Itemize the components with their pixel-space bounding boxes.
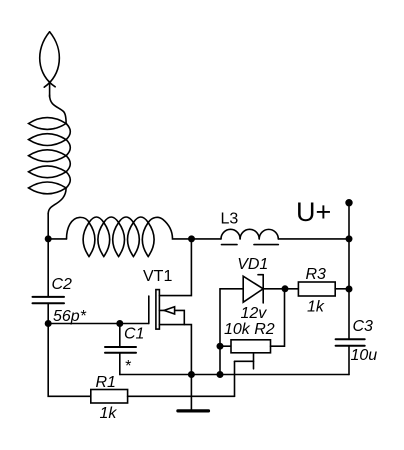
inductor coupling coil (horizontal, 5 turns) (48, 217, 191, 257)
svg-text:VT1: VT1 (143, 268, 172, 285)
svg-text:12v: 12v (241, 305, 268, 322)
wire bottom wire A (120, 374, 349, 376)
inductor antenna coil (vertical, 5 turns) (29, 95, 71, 214)
svg-text:56p*: 56p* (53, 308, 87, 325)
capacitor C2 (33, 297, 65, 303)
svg-text:L3: L3 (221, 211, 239, 228)
svg-text:C3: C3 (353, 318, 374, 335)
node U+ terminal (345, 199, 352, 206)
resistor R1 (91, 390, 235, 404)
svg-text:1k: 1k (307, 299, 325, 316)
node C1 top (116, 320, 123, 327)
resistor R3 (285, 282, 349, 296)
node coil/antenna junction (45, 235, 52, 242)
svg-text:C2: C2 (52, 276, 73, 293)
node L3/rail (346, 235, 353, 242)
svg-text:10u: 10u (351, 347, 378, 364)
wire right rail (U+ down to C3 top plate) (348, 203, 350, 340)
transistor VT1 (149, 239, 192, 375)
svg-text:*: * (125, 358, 132, 375)
node R2 left (217, 343, 224, 350)
wire ground drop (190, 375, 192, 411)
wire R1 to R2 wiper (234, 361, 236, 396)
node VD1-anode bottom (217, 371, 224, 378)
resistor R2 (trimmer 10k) (220, 289, 285, 369)
svg-text:U+: U+ (296, 197, 331, 227)
svg-text:VD1: VD1 (237, 256, 268, 273)
capacitor C1 (105, 324, 136, 375)
inductor L3 (221, 229, 278, 244)
wire VD1 anode drop (to R2 and bottom wire) (219, 289, 221, 375)
node drain junction (188, 235, 195, 242)
svg-text:1k: 1k (100, 405, 118, 422)
wire left rail lower (C2 bottom to R1) (48, 303, 91, 396)
svg-text:10k R2: 10k R2 (224, 321, 275, 338)
ground (178, 409, 209, 412)
svg-text:R3: R3 (306, 266, 327, 283)
svg-text:C1: C1 (124, 326, 144, 343)
wire L3 to right rail (278, 238, 349, 240)
antenna (40, 32, 60, 97)
node VD1 cathode (282, 285, 289, 292)
wire gate wire (48, 323, 149, 325)
capacitor C3 (336, 339, 365, 374)
wire L3 lead left (192, 238, 222, 240)
svg-text:R1: R1 (96, 374, 116, 391)
wire left rail upper (coil bottom to C2 top plate) (47, 213, 49, 297)
node source/ground (188, 371, 195, 378)
node R3/rail (346, 286, 353, 293)
node C2/gate wire (45, 320, 52, 327)
diode VD1 (zener 12v) (220, 275, 285, 303)
